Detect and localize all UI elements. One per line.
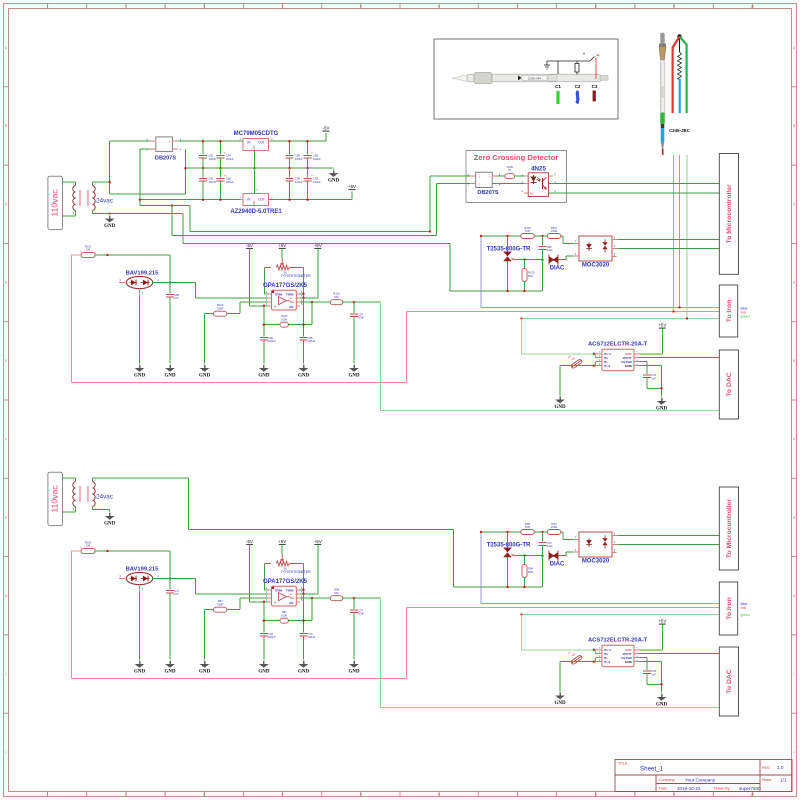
wire	[437, 183, 470, 185]
wire	[521, 319, 523, 354]
svg-text:1nF: 1nF	[174, 296, 179, 300]
svg-text:1nF: 1nF	[651, 672, 656, 676]
junction	[520, 613, 522, 615]
svg-text:GND: GND	[252, 200, 256, 206]
wire	[300, 593, 318, 595]
capacitor C96 100nF	[260, 306, 276, 363]
wire	[72, 678, 407, 680]
junction	[523, 555, 525, 557]
wire	[140, 205, 190, 207]
cartridge internal schematic	[673, 34, 687, 113]
svg-text:150R: 150R	[551, 525, 557, 529]
svg-text:3: 3	[203, 792, 205, 796]
wire	[542, 532, 544, 542]
wire	[560, 365, 596, 367]
wire	[110, 213, 183, 215]
wire	[92, 211, 94, 214]
wire	[647, 387, 662, 389]
svg-text:DIAC: DIAC	[550, 265, 565, 271]
svg-text:green: green	[741, 613, 750, 617]
svg-text:2019-10-23: 2019-10-23	[677, 786, 701, 791]
resistor R98 56R	[522, 556, 533, 587]
power -5V	[246, 243, 253, 249]
wire	[93, 477, 189, 479]
wire	[196, 297, 269, 299]
wire	[524, 260, 526, 269]
svg-text:2: 2	[125, 792, 127, 796]
svg-text:56R: 56R	[528, 274, 533, 278]
wire	[618, 543, 724, 545]
svg-text:GND: GND	[656, 702, 668, 707]
iron cartridge illustration box	[434, 39, 618, 119]
junction	[660, 683, 662, 685]
svg-text:51R: 51R	[525, 525, 530, 529]
wire	[521, 615, 523, 650]
capacitor C97 10nF	[350, 302, 364, 363]
svg-text:C1: C1	[555, 84, 561, 89]
svg-text:4: 4	[282, 792, 284, 796]
svg-text:F: F	[793, 437, 795, 441]
svg-text:+5V: +5V	[314, 243, 322, 248]
wire	[264, 267, 271, 269]
svg-text:To Microcontroller: To Microcontroller	[726, 184, 733, 244]
svg-text:24vac: 24vac	[96, 493, 113, 500]
junction	[506, 235, 508, 237]
wire	[263, 341, 265, 364]
svg-text:5: 5	[360, 792, 362, 796]
wire	[522, 318, 724, 320]
wire	[171, 206, 173, 236]
wire	[303, 564, 305, 594]
svg-text:-5V: -5V	[246, 243, 253, 248]
svg-text:IP-:2: IP-:2	[604, 364, 611, 368]
wire	[72, 254, 82, 256]
svg-text:+5V: +5V	[278, 539, 286, 544]
svg-text:C245-JBC: C245-JBC	[669, 128, 691, 133]
svg-text:Sheet:: Sheet:	[762, 778, 772, 782]
junction	[263, 620, 265, 622]
junction	[288, 140, 290, 142]
wire	[311, 598, 313, 621]
resistor R99 10K	[330, 588, 343, 601]
svg-text:IP-:2: IP-:2	[604, 660, 611, 664]
svg-text:green: green	[741, 315, 750, 319]
wire	[542, 556, 544, 587]
svg-text:-: -	[158, 147, 159, 151]
wire	[71, 551, 73, 679]
junction	[311, 597, 313, 599]
svg-text:TITLE:: TITLE:	[618, 762, 628, 766]
wire	[380, 598, 382, 707]
svg-text:GND: GND	[554, 701, 566, 706]
svg-text:Sheet_1: Sheet_1	[640, 766, 664, 773]
wire	[686, 155, 688, 319]
current sensor U? ACS712ELCTR-20A-T	[588, 341, 648, 370]
capacitor C79 100nF	[300, 594, 316, 659]
regulator AZ2940D-5.0TRE1	[230, 188, 282, 215]
wire	[188, 529, 453, 531]
wire	[646, 674, 648, 684]
svg-text:100nF: 100nF	[268, 339, 276, 343]
svg-text:9: 9	[673, 4, 675, 8]
wire	[263, 268, 265, 294]
svg-text:+5V: +5V	[278, 243, 286, 248]
svg-text:+: +	[224, 174, 226, 178]
svg-text:GND: GND	[348, 669, 360, 674]
junction	[506, 586, 508, 588]
wire	[263, 564, 265, 590]
wire	[263, 602, 265, 633]
wire	[110, 140, 150, 142]
junction	[593, 353, 595, 355]
cartridge drawing C245-044	[452, 73, 608, 84]
wire	[205, 313, 214, 315]
wire	[303, 594, 305, 633]
wire	[646, 378, 648, 388]
svg-text:AZ2940D-5.0TRE1: AZ2940D-5.0TRE1	[230, 209, 282, 215]
wire	[204, 610, 206, 659]
wire	[92, 507, 94, 510]
wire	[140, 148, 150, 150]
svg-text:NC: NC	[289, 601, 294, 605]
wire	[289, 141, 291, 154]
wire	[481, 306, 723, 308]
junction	[506, 531, 508, 533]
wire	[565, 256, 567, 260]
svg-text:I: I	[6, 672, 7, 676]
svg-text:7: 7	[516, 792, 518, 796]
svg-text:GND: GND	[656, 406, 668, 411]
svg-text:4N25: 4N25	[531, 165, 546, 172]
wire	[514, 259, 543, 261]
junction	[263, 601, 265, 603]
wire	[661, 366, 663, 396]
junction	[306, 199, 308, 201]
capacitor C61 1nF	[640, 362, 662, 389]
svg-text:100uF: 100uF	[313, 180, 321, 184]
svg-text:100nF: 100nF	[209, 180, 217, 184]
wire	[289, 563, 303, 565]
wire	[303, 268, 305, 298]
wire	[449, 244, 451, 292]
title block texts	[618, 762, 787, 791]
wire	[196, 593, 269, 595]
junction	[523, 259, 525, 261]
wire	[289, 159, 291, 169]
svg-text:8: 8	[595, 792, 597, 796]
wire	[481, 531, 563, 533]
svg-text:4: 4	[282, 4, 284, 8]
svg-text:GND: GND	[328, 179, 340, 184]
resistor R106 1K	[498, 165, 525, 179]
wire	[169, 283, 171, 294]
svg-text:10nF: 10nF	[358, 316, 364, 320]
optotriac U? MOC3020	[574, 236, 618, 269]
resistor R100	[81, 540, 95, 553]
svg-text:V-: V-	[274, 600, 277, 604]
svg-text:POTENTIOMETER: POTENTIOMETER	[281, 570, 311, 574]
junction	[353, 301, 355, 303]
junction	[109, 181, 111, 183]
wire	[220, 182, 222, 200]
capacitor C78 100nF	[260, 602, 276, 659]
svg-text:J: J	[793, 751, 795, 755]
svg-text:MOC3020: MOC3020	[582, 559, 610, 565]
wire	[661, 328, 663, 354]
svg-text:OPA177GS/2K5: OPA177GS/2K5	[263, 283, 308, 289]
capacitor C81	[199, 168, 216, 200]
capacitor C98 1nF	[166, 283, 179, 364]
svg-text:POTENTIOMETER: POTENTIOMETER	[281, 274, 311, 278]
svg-text:V+: V+	[289, 592, 293, 596]
regulator MC79M05CDTG	[234, 131, 279, 151]
ground	[348, 659, 360, 674]
resistor R107 150R	[547, 226, 560, 239]
svg-text:GND: GND	[164, 669, 176, 674]
wire	[353, 598, 355, 609]
wire	[618, 534, 724, 536]
wire	[498, 175, 506, 177]
capacitor C80	[217, 168, 234, 200]
wire	[558, 555, 566, 557]
junction	[171, 204, 173, 206]
ground	[554, 691, 566, 706]
capacitor C89	[286, 141, 303, 168]
wire	[93, 181, 110, 183]
svg-text:C245-044: C245-044	[528, 77, 542, 81]
wire	[204, 314, 206, 363]
ground	[656, 396, 668, 411]
svg-text:6: 6	[438, 4, 440, 8]
wire	[562, 236, 564, 243]
wire	[454, 586, 543, 588]
wire	[303, 637, 305, 660]
wire	[220, 141, 222, 154]
svg-text:+: +	[311, 174, 313, 178]
wire	[481, 235, 563, 237]
svg-text:GND: GND	[164, 373, 176, 378]
ground (24vac)	[104, 214, 116, 229]
svg-text:GND: GND	[258, 669, 270, 674]
svg-text:5: 5	[360, 4, 362, 8]
svg-text:Company:: Company:	[659, 778, 675, 782]
svg-text:GND: GND	[252, 145, 256, 151]
wire	[139, 297, 141, 363]
wire	[264, 620, 312, 622]
wire	[92, 182, 94, 186]
svg-text:10nF: 10nF	[358, 612, 364, 616]
wire	[202, 182, 204, 200]
wire	[169, 298, 171, 364]
junction	[106, 254, 108, 256]
svg-text:GND: GND	[625, 660, 633, 664]
ground	[164, 659, 176, 674]
wire	[140, 199, 240, 201]
wire	[542, 250, 544, 260]
svg-text:24vac: 24vac	[96, 197, 113, 204]
junction	[306, 140, 308, 142]
triac Q? T2535-800G-TR	[487, 532, 531, 587]
svg-text:NC: NC	[289, 305, 294, 309]
potentiometer RP2	[276, 555, 311, 575]
svg-text:GND: GND	[199, 373, 211, 378]
triac Q? T2535-800G-TR	[487, 236, 531, 291]
wire	[565, 552, 567, 556]
junction	[253, 167, 255, 169]
junction	[219, 140, 221, 142]
blue colour bar C2	[577, 91, 578, 104]
wire	[307, 159, 309, 169]
junction	[593, 649, 595, 651]
svg-text:+: +	[311, 151, 313, 155]
svg-text:DIAC: DIAC	[550, 561, 565, 567]
junction	[480, 531, 482, 533]
wire	[263, 637, 265, 660]
fuse F6 6A	[567, 354, 583, 369]
svg-text:56R: 56R	[528, 570, 533, 574]
wire	[450, 290, 543, 292]
wire	[253, 168, 255, 194]
diac	[549, 551, 565, 568]
svg-text:10K: 10K	[334, 295, 339, 299]
wire	[317, 249, 319, 298]
wire	[109, 510, 111, 511]
junction	[429, 230, 431, 232]
wire	[263, 306, 265, 337]
wire	[269, 140, 327, 142]
port To Iron (ch2)	[719, 582, 737, 635]
bridge rectifier DB207S (zcd)	[468, 172, 501, 196]
wire	[264, 324, 312, 326]
wire	[562, 532, 564, 539]
ground	[199, 363, 211, 378]
svg-text:GND: GND	[298, 669, 310, 674]
wire	[195, 579, 197, 594]
wire	[92, 478, 94, 482]
wire	[492, 183, 528, 185]
ground	[656, 692, 668, 707]
svg-text:6: 6	[438, 792, 440, 796]
wire	[522, 614, 724, 616]
wire	[640, 361, 648, 363]
wire	[481, 602, 723, 604]
wire	[480, 236, 482, 307]
wire	[281, 545, 283, 555]
svg-text:22pF: 22pF	[547, 248, 553, 252]
svg-text:GND: GND	[134, 669, 146, 674]
svg-text:Date:: Date:	[659, 787, 668, 791]
wire	[289, 168, 291, 177]
wire	[253, 151, 255, 169]
wire	[93, 509, 110, 511]
wire	[169, 551, 171, 579]
power +5V	[658, 619, 666, 625]
svg-text:+: +	[169, 140, 171, 144]
junction	[288, 199, 290, 201]
svg-text:3: 3	[203, 4, 205, 8]
svg-text:51R: 51R	[525, 229, 530, 233]
bridge rectifier DB207S (power)	[146, 137, 181, 162]
wire	[522, 649, 597, 651]
svg-text:To Microcontroller: To Microcontroller	[726, 499, 733, 559]
wire	[559, 366, 561, 395]
junction	[660, 387, 662, 389]
power +5V	[278, 539, 286, 545]
svg-text:10K: 10K	[86, 248, 91, 252]
wire	[110, 193, 186, 195]
ground	[134, 659, 146, 674]
wire	[307, 141, 309, 154]
wire	[240, 597, 268, 599]
junction	[678, 306, 680, 308]
wire	[300, 301, 381, 303]
svg-text:G: G	[5, 516, 8, 520]
junction	[302, 589, 304, 591]
green colour bar C1	[556, 91, 559, 104]
port To DAC (ch2)	[719, 647, 738, 716]
capacitor C84	[217, 141, 234, 168]
svg-text:OUT: OUT	[258, 198, 265, 202]
ground	[134, 363, 146, 378]
svg-text:+: +	[597, 53, 600, 59]
port To Iron	[719, 285, 737, 337]
wire	[406, 608, 408, 679]
wire	[169, 579, 171, 590]
wire	[549, 183, 724, 185]
wire	[63, 215, 76, 217]
svg-text:GND: GND	[104, 224, 116, 229]
capacitor C86 22pF	[539, 236, 554, 260]
wire	[640, 353, 663, 355]
wire	[429, 176, 431, 231]
wire	[549, 192, 724, 194]
svg-text:8: 8	[595, 4, 597, 8]
junction	[480, 235, 482, 237]
svg-text:To DAC: To DAC	[726, 372, 733, 397]
wire	[647, 683, 662, 685]
svg-text:1/1: 1/1	[780, 777, 787, 782]
svg-text:I: I	[794, 672, 795, 676]
wire	[524, 556, 526, 565]
wire	[317, 545, 319, 594]
capacitor C82	[199, 141, 216, 168]
svg-text:G: G	[793, 516, 796, 520]
wire	[303, 341, 305, 364]
potentiometer RP1	[276, 259, 311, 279]
power -5V	[246, 539, 253, 545]
wire	[640, 357, 724, 359]
junction	[523, 586, 525, 588]
wire	[679, 155, 681, 307]
ground (24vac ch2)	[104, 511, 116, 526]
wire	[640, 661, 662, 663]
ground	[164, 363, 176, 378]
wire	[307, 168, 309, 177]
junction	[109, 212, 111, 214]
svg-text:OUT: OUT	[258, 141, 265, 145]
junction	[311, 301, 313, 303]
svg-text:MOC3020: MOC3020	[582, 263, 610, 269]
wire	[406, 312, 408, 383]
svg-text:J: J	[5, 751, 7, 755]
wire	[239, 302, 241, 314]
op-amp U? OPA177GS/2K5	[263, 579, 308, 606]
wire	[195, 283, 197, 298]
svg-text:GND: GND	[554, 405, 566, 410]
svg-text:ACS712ELCTR-20A-T: ACS712ELCTR-20A-T	[588, 341, 648, 347]
wire	[75, 211, 77, 216]
wire	[72, 382, 407, 384]
